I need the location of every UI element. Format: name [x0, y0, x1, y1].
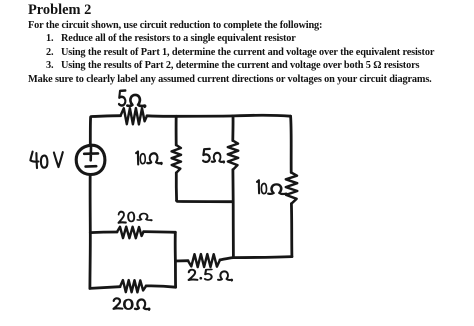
- resistor R2 10Ω (middle-left, vertical): [172, 145, 181, 173]
- wire: bottom row left lead: [90, 287, 120, 289]
- resistor R1 5Ω (top): [121, 108, 148, 124]
- label 40 V: [30, 152, 62, 169]
- label 20Ω (top): [118, 212, 151, 223]
- resistor R7 20Ω (lower horizontal): [120, 280, 146, 292]
- wire: middle 10Ω branch lower lead to node: [175, 173, 178, 201]
- label 10Ω (middle): [136, 152, 162, 165]
- wire: 20Ω top row right lead: [144, 230, 176, 233]
- wire: horizontal connecting 10Ω bottom to 5Ω branch: [177, 201, 233, 202]
- wire: middle vertical joining 20Ω rows and 2.5Ω row: [174, 232, 177, 287]
- wire: 5Ω branch lower lead down to bottom-right bus: [231, 170, 234, 258]
- label 2.5Ω: [189, 269, 233, 280]
- label 5Ω (top): [119, 91, 145, 107]
- wire: middle 5Ω branch upper lead: [231, 116, 234, 141]
- wire: bottom row right lead: [146, 286, 176, 287]
- wire: right branch lower lead: [290, 204, 293, 257]
- wire: source top to top-left corner then to 5-ohm resistor: [90, 116, 120, 146]
- problem text: [28, 2, 91, 19]
- resistor R6 20Ω (upper horizontal): [117, 227, 144, 239]
- resistor R4 10Ω (right, vertical): [286, 173, 298, 204]
- wire: left bus source bottom down to bottom-left corner: [89, 175, 92, 289]
- wire: right branch upper lead: [289, 116, 292, 172]
- resistor R3 5Ω (middle, vertical): [228, 141, 238, 170]
- wire: middle 10Ω branch upper lead: [175, 116, 178, 145]
- label 10Ω (right): [257, 180, 287, 194]
- resistor R5 2.5Ω (horizontal): [188, 254, 220, 267]
- voltage source V1 40V: [76, 145, 105, 174]
- wire: bottom-right bus from right branch to 2.5Ω: [220, 257, 292, 260]
- wire: top bus from R1 to top-right corner: [147, 115, 291, 116]
- label 5Ω (middle): [203, 149, 224, 163]
- wire: 2.5Ω left lead to middle vertical: [175, 259, 188, 262]
- label 20Ω (bottom): [114, 298, 150, 309]
- wire: 20Ω top row left lead: [90, 231, 117, 234]
